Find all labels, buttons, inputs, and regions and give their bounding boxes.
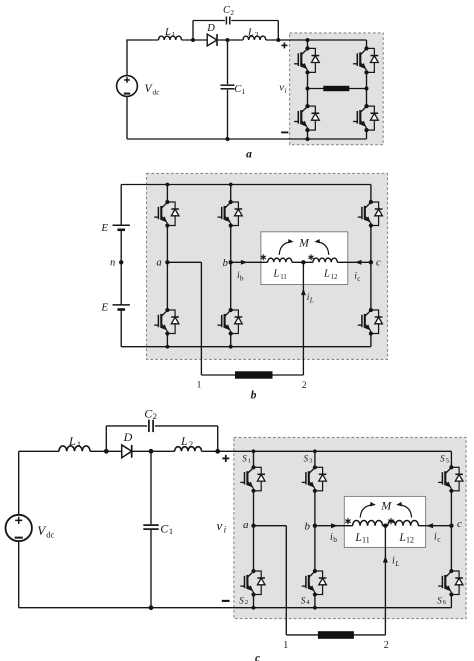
svg-text:1: 1 <box>242 87 246 96</box>
svg-text:1: 1 <box>172 30 176 39</box>
svg-text:M: M <box>298 237 310 249</box>
svg-text:E: E <box>100 302 108 314</box>
polarity star L11 (fig b) <box>261 254 266 260</box>
wire: top rail fig a <box>127 39 367 41</box>
svg-text:1: 1 <box>169 526 173 536</box>
mutual coupling arrow right (fig b) <box>314 239 328 255</box>
transistor S6 (fig c) <box>438 569 463 597</box>
svg-text:11: 11 <box>280 274 287 281</box>
diode D (fig c) <box>122 445 132 458</box>
wire: left bridge leg (fig a) <box>307 40 309 139</box>
svg-text:1: 1 <box>197 381 202 391</box>
label L12 (fig b) <box>323 269 338 281</box>
node a (fig b) <box>165 260 169 264</box>
wire: left branch with source fig a <box>126 39 128 139</box>
svg-text:b: b <box>223 258 228 269</box>
label L12 (fig c) <box>398 532 414 545</box>
label S3 (fig c) <box>304 453 313 464</box>
inductor L2 (fig c) <box>175 447 202 452</box>
figure label c <box>255 653 260 661</box>
wire: inverter leg c (fig b) <box>370 185 372 347</box>
svg-text:b: b <box>305 520 311 532</box>
svg-text:b: b <box>240 274 244 282</box>
node: winding midpoint (fig c) <box>383 524 387 528</box>
label terminal 2 (fig c) <box>384 640 389 651</box>
svg-text:D: D <box>123 430 133 444</box>
label L2 (fig c) <box>180 434 193 449</box>
transistor: leg b lower IGBT (fig b) <box>218 308 243 336</box>
transistor: leg b upper IGBT (fig b) <box>218 200 243 228</box>
wire: DC source branch (fig b) <box>120 185 122 347</box>
wire: phase b to winding (fig b) <box>231 261 268 263</box>
svg-text:dc: dc <box>153 88 161 97</box>
label c (fig c) <box>457 518 462 530</box>
label i_L (fig b) <box>307 293 314 304</box>
wire: inverter leg c (fig c) <box>450 451 452 607</box>
figure label a <box>246 149 252 161</box>
svg-text:i: i <box>284 86 286 95</box>
label L11 (fig c) <box>354 532 369 545</box>
svg-text:L: L <box>309 297 314 305</box>
polarity star L12 (fig c) <box>388 518 393 524</box>
svg-text:L: L <box>398 532 405 544</box>
transistor: leg a lower IGBT (fig b) <box>154 308 179 336</box>
label V_dc (fig c) <box>37 523 54 540</box>
wire: winding middle (fig b) <box>292 261 313 263</box>
transistor: leg c lower IGBT (fig b) <box>358 308 383 336</box>
svg-text:12: 12 <box>331 274 338 281</box>
label S2 (fig c) <box>239 595 248 606</box>
label C2 (fig c) <box>144 406 157 421</box>
wire: node a to terminal 1 (fig c) <box>254 526 318 635</box>
wire: C2 bypass path (fig c) <box>106 426 217 451</box>
label S6 (fig c) <box>437 595 447 606</box>
node: leg a top rail junction (fig c) <box>252 449 256 453</box>
polarity star L12 (fig b) <box>308 254 313 260</box>
label i_c (fig c) <box>434 531 441 543</box>
label terminal 1 (fig b) <box>197 381 202 391</box>
label i_b (fig c) <box>330 532 337 544</box>
node: junction before diode (fig a) <box>191 38 195 42</box>
svg-text:1: 1 <box>248 457 251 464</box>
svg-text:L: L <box>273 269 280 280</box>
svg-text:c: c <box>255 653 260 661</box>
wire: source branch fig c <box>18 451 20 607</box>
label terminal 1 (fig c) <box>283 640 288 651</box>
svg-text:2: 2 <box>302 381 307 391</box>
svg-text:i: i <box>224 525 227 535</box>
label i_L (fig c) <box>392 556 399 569</box>
node: junction before diode (fig c) <box>104 449 109 454</box>
label v_i (fig a) <box>279 83 286 95</box>
svg-text:b: b <box>333 535 337 544</box>
label L11 (fig b) <box>273 269 287 281</box>
wire: bottom rail fig c <box>19 607 452 609</box>
wire: inverter leg b (fig b) <box>230 185 232 347</box>
wire: winding middle (fig c) <box>383 525 388 527</box>
node: leg a bottom rail junction (fig c) <box>252 606 256 610</box>
label + terminal (fig a) <box>281 42 287 48</box>
load (black bar, fig a) <box>323 86 349 91</box>
current arrow i_b (fig c) <box>331 523 338 528</box>
label C1 (fig c) <box>160 521 173 536</box>
label S4 (fig c) <box>301 595 311 606</box>
transistor: bottom-right IGBT with diode (fig a) <box>353 104 378 132</box>
svg-text:S: S <box>440 453 445 463</box>
mutual coupling arrow left (fig c) <box>360 502 376 518</box>
label b (fig b) <box>223 258 228 269</box>
figure a: quasi-Z-source DC link circuit <box>117 5 384 160</box>
label V_dc (fig a) <box>145 83 161 97</box>
label E upper (fig b) <box>100 222 108 234</box>
svg-text:L: L <box>247 27 254 38</box>
svg-text:v: v <box>217 518 223 533</box>
polarity star L11 (fig c) <box>345 518 350 524</box>
mutual coupling arrow left (fig b) <box>279 239 293 255</box>
capacitor C2 (fig a) <box>226 17 229 25</box>
figure label b <box>251 389 257 401</box>
wire: right bridge leg (fig a) <box>366 40 368 139</box>
svg-text:b: b <box>251 389 257 401</box>
svg-text:D: D <box>206 23 215 34</box>
svg-text:L: L <box>68 434 76 448</box>
svg-text:L: L <box>164 27 171 38</box>
label C2 (fig a) <box>223 5 234 17</box>
inductor L2 (fig a) <box>243 36 266 40</box>
svg-text:1: 1 <box>283 640 288 651</box>
node: junction after L2 (fig a) <box>276 38 280 42</box>
current arrow i_c (fig c) <box>426 523 433 528</box>
label L2 (fig a) <box>247 27 259 39</box>
node n (fig b) <box>119 260 123 264</box>
transistor S2 (fig c) <box>240 569 265 597</box>
svg-text:S: S <box>301 595 306 605</box>
load (black bar, fig c) <box>318 631 354 639</box>
svg-text:a: a <box>243 519 249 531</box>
battery E lower (fig b) <box>113 305 130 310</box>
label L1 (fig c) <box>68 434 81 449</box>
figure c: combined quasi-Z-source + three-leg inverter <box>6 406 467 661</box>
svg-text:S: S <box>437 595 442 605</box>
winding L12 (fig b) <box>313 258 337 262</box>
battery E upper (fig b) <box>113 225 130 230</box>
wire: inverter leg a (fig c) <box>253 451 255 607</box>
mutual coupling arrow right (fig c) <box>396 502 411 518</box>
diode D (fig a) <box>207 34 217 46</box>
label + terminal (fig c) <box>222 455 229 462</box>
motor winding box (fig b) <box>261 232 348 285</box>
label b (fig c) <box>305 520 311 532</box>
svg-text:a: a <box>246 149 252 161</box>
node b (fig b) <box>229 260 233 264</box>
wire: winding midpoint to terminal 2 / i_L branch (fig b) <box>273 262 304 375</box>
wire: inverter leg b (fig c) <box>314 451 316 607</box>
svg-text:S: S <box>304 453 309 463</box>
voltage source V_dc (fig c) <box>6 515 32 541</box>
inductor L1 (fig a) <box>159 36 182 40</box>
node: winding midpoint (fig b) <box>301 260 305 264</box>
svg-text:5: 5 <box>446 457 449 464</box>
label S1 (fig c) <box>242 453 251 464</box>
capacitor C1 branch wire (fig c) <box>150 451 152 607</box>
capacitor C2 (fig c) <box>149 420 153 432</box>
node c (fig c) <box>449 524 453 528</box>
label terminal 2 (fig b) <box>302 381 307 391</box>
transistor: top-right IGBT with diode (fig a) <box>353 46 378 74</box>
svg-text:12: 12 <box>406 536 414 545</box>
capacitor C1 branch wire (fig a) <box>227 40 229 139</box>
svg-text:2: 2 <box>189 439 193 449</box>
node a (fig c) <box>251 524 255 528</box>
wire: winding midpoint to terminal 2 / i_L branch (fig c) <box>354 526 386 635</box>
node: leg b bottom rail junction (fig c) <box>313 606 317 610</box>
svg-text:L: L <box>394 559 399 568</box>
svg-text:dc: dc <box>46 530 54 540</box>
node b (fig c) <box>313 524 317 528</box>
svg-text:c: c <box>357 275 360 283</box>
label - terminal (fig a) <box>281 131 288 133</box>
label S5 (fig c) <box>440 453 449 464</box>
svg-text:2: 2 <box>153 411 157 421</box>
svg-text:n: n <box>110 257 115 268</box>
node: C1 bottom junction (fig c) <box>149 605 154 610</box>
node: junction after L2 (fig c) <box>215 449 220 454</box>
wire: node a to terminal 1 (fig b) <box>167 262 235 375</box>
label i_b (fig b) <box>237 271 244 282</box>
node: left leg top rail junction (fig a) <box>306 38 310 42</box>
wire: top rail (fig b) <box>121 184 371 186</box>
svg-text:L: L <box>354 532 361 544</box>
svg-text:a: a <box>156 257 161 268</box>
node: junction after diode / C1 top (fig c) <box>149 449 154 454</box>
winding L12 (fig c) <box>388 520 419 525</box>
node: C1 bottom junction (fig a) <box>226 137 230 141</box>
label D (fig c) <box>123 430 133 444</box>
label v_i (fig c) <box>217 518 227 535</box>
transistor S3 (fig c) <box>302 465 327 493</box>
label C1 (fig a) <box>234 84 245 96</box>
svg-text:S: S <box>242 453 247 463</box>
transistor S4 (fig c) <box>302 569 327 597</box>
svg-text:S: S <box>239 595 244 605</box>
transistor: top-left IGBT with diode (fig a) <box>294 46 319 74</box>
figure b: three-leg inverter with split DC source <box>100 173 387 401</box>
node: leg b top rail junction (fig b) <box>229 183 233 187</box>
transistor S1 (fig c) <box>240 465 265 493</box>
label L1 (fig a) <box>164 27 176 39</box>
node: junction after diode / C1 top (fig a) <box>226 38 230 42</box>
winding L11 (fig c) <box>353 521 383 526</box>
svg-text:2: 2 <box>230 8 234 17</box>
wire: bottom rail (fig b) <box>121 346 371 348</box>
svg-text:11: 11 <box>362 536 370 545</box>
label M (fig c) <box>380 498 392 512</box>
svg-text:L: L <box>180 434 188 448</box>
label c (fig b) <box>376 258 381 269</box>
label a (fig c) <box>243 519 249 531</box>
wire: top rail fig c <box>19 450 452 452</box>
svg-text:2: 2 <box>245 599 248 606</box>
svg-text:L: L <box>323 269 330 280</box>
svg-text:1: 1 <box>77 439 81 449</box>
node: leg b bottom rail junction (fig b) <box>229 345 233 349</box>
svg-text:2: 2 <box>384 640 389 651</box>
current arrow i_L (fig b) <box>301 289 306 296</box>
label n (fig b) <box>110 257 115 268</box>
H-bridge converter enclosure (dashed gray box) <box>290 33 384 145</box>
current arrow i_c (fig b) <box>355 260 362 265</box>
node c (fig b) <box>369 260 373 264</box>
svg-text:c: c <box>376 258 381 269</box>
inductor L1 (fig c) <box>59 446 90 451</box>
capacitor C1 (fig a) <box>221 85 235 89</box>
label E lower (fig b) <box>100 302 108 314</box>
label M (fig b) <box>298 237 310 249</box>
wire: C2 bypass path (fig a) <box>193 21 278 41</box>
winding L11 (fig b) <box>268 258 292 262</box>
node: leg b top rail junction (fig c) <box>313 449 317 453</box>
svg-text:M: M <box>380 498 392 512</box>
inverter enclosure (dashed gray box, fig b) <box>147 173 388 359</box>
node: leg a bottom rail junction (fig b) <box>166 345 170 349</box>
wire: phase b to winding (fig c) <box>315 525 353 527</box>
node: leg a top rail junction (fig b) <box>166 183 170 187</box>
wire: bottom rail fig a <box>127 138 367 140</box>
transistor: bottom-left IGBT with diode (fig a) <box>294 104 319 132</box>
voltage source V_dc (fig a) <box>117 76 138 97</box>
transistor: leg a upper IGBT (fig b) <box>154 200 179 228</box>
svg-text:E: E <box>100 222 108 234</box>
node: right mid junction (fig a) <box>365 87 369 91</box>
wire: winding to phase c (fig c) <box>418 525 451 527</box>
wire: winding to phase c (fig b) <box>337 261 371 263</box>
transistor S5 (fig c) <box>438 465 463 493</box>
svg-text:3: 3 <box>309 457 312 464</box>
label D (fig a) <box>206 23 215 34</box>
wire: inverter leg a (fig b) <box>166 185 168 347</box>
capacitor C1 (fig c) <box>143 525 158 529</box>
label - terminal (fig c) <box>222 600 230 602</box>
svg-text:2: 2 <box>255 30 259 39</box>
label i_c (fig b) <box>354 271 360 282</box>
inverter enclosure (dashed gray box, fig c) <box>234 437 466 618</box>
current arrow i_L (fig c) <box>383 556 388 563</box>
node: left leg bottom rail junction (fig a) <box>306 137 310 141</box>
current arrow i_b (fig b) <box>241 260 248 265</box>
wire: load row (fig a) <box>308 88 367 90</box>
label a (fig b) <box>156 257 161 268</box>
svg-text:c: c <box>457 518 462 530</box>
node: left mid junction (fig a) <box>306 87 310 91</box>
load (black bar, fig b) <box>235 371 273 378</box>
transistor: leg c upper IGBT (fig b) <box>358 200 383 228</box>
motor winding box (fig c) <box>344 496 425 547</box>
